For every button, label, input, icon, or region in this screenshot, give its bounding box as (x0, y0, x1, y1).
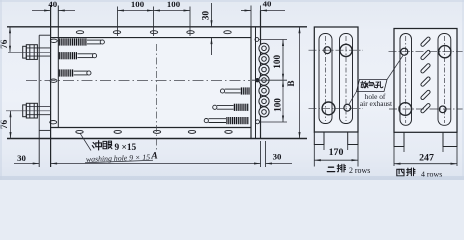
dim 40 top-left (32, 10, 75, 12)
top flange hole 1 (76, 31, 83, 34)
2-row slot right (340, 34, 353, 124)
top flange hole 5 (224, 31, 231, 34)
4-row bottom big circle (399, 103, 412, 116)
top flange hole 3 (150, 31, 157, 34)
2-row top small circle (324, 47, 331, 54)
top flange inner line (51, 37, 251, 39)
glyph 眼 of 冲眼 (103, 141, 112, 149)
leader to 4-row small circle (387, 56, 403, 80)
finned tube B3 (204, 117, 248, 124)
top flange hole 4 (187, 31, 194, 34)
svg-text:247: 247 (419, 153, 434, 164)
dim 30 vertical (top flange) (211, 3, 213, 55)
glyph 排 of 二排 (337, 164, 345, 172)
2-row feet (314, 132, 358, 145)
U-bend 2 (259, 54, 269, 64)
bottom flange hole 3 (153, 130, 160, 133)
bottom dim line with 30 / A / 30 (14, 141, 292, 167)
main view outer bottom edge (7, 138, 307, 140)
right plate hole top (255, 38, 259, 42)
finned tube T1 (59, 38, 104, 45)
glyph 放 of 放气孔 (361, 81, 368, 88)
dim 76 bottom vertical (10, 111, 12, 139)
bottom flange inner line (51, 127, 251, 129)
dim 100 right side upper (252, 40, 287, 123)
4-row louver 6 (420, 103, 431, 114)
top fitting centerline (8, 51, 51, 53)
right tube plate line a (250, 27, 252, 139)
dim 170 (314, 145, 358, 167)
hand-drawn Chinese glyphs (no CJK font available) (92, 81, 415, 176)
svg-text:30: 30 (17, 153, 26, 163)
4-row louver 3 (420, 63, 431, 74)
4-row slot centerlines (405, 36, 407, 123)
right plate hole bottom (256, 120, 260, 124)
right tube plate line b (255, 27, 257, 139)
4-row feet (394, 132, 457, 146)
top flange hole 2 (113, 31, 120, 34)
svg-text:100: 100 (272, 55, 282, 69)
main view outer top edge (7, 26, 307, 28)
2-row top big circle (340, 44, 352, 56)
dim 100 right side lower (282, 80, 284, 122)
bottom fitting centerline (6, 110, 51, 112)
top pipe union fitting (23, 45, 51, 60)
left plate hole bottom (50, 121, 57, 124)
scan shading edges (0, 0, 464, 2)
U-bend 7 (259, 107, 269, 117)
left plate hole middle (50, 79, 57, 82)
bottom flange hole 2 (114, 130, 121, 133)
2-row bottom centerline (309, 107, 364, 109)
main face left edge (50, 6, 52, 168)
glyph 排 of 四排 (407, 168, 415, 176)
svg-text:washing hole 9 × 15: washing hole 9 × 15 (86, 153, 151, 164)
bottom flange hole 4 (188, 130, 195, 133)
dim 100 first (118, 7, 154, 37)
left plate hole top (50, 39, 57, 42)
dim 76 top vertical (9, 27, 11, 53)
2-row view box (314, 27, 358, 132)
vertical centerline of main view (156, 44, 158, 150)
4-row louver 5 (420, 90, 431, 101)
U-bend 1 (259, 43, 269, 53)
svg-text:30: 30 (202, 11, 212, 21)
horizontal centerline of main view (26, 80, 250, 82)
4-row bottom centerline (389, 108, 463, 110)
4-row bottom small circle (439, 106, 446, 113)
4-row louver 1 (420, 36, 431, 47)
glyph 气 of 放气孔 (369, 81, 376, 87)
svg-text:9 ×15: 9 ×15 (115, 143, 137, 153)
finned tube B2 (213, 104, 248, 111)
svg-text:2 rows: 2 rows (349, 166, 370, 175)
2-row bottom small circle (344, 104, 351, 111)
left bracket edge (38, 35, 40, 167)
2-row slot centerlines (325, 36, 327, 121)
glyph 孔 of 放气孔 (376, 82, 383, 88)
U-bend 4 (259, 75, 269, 85)
finned tube T3 (59, 69, 91, 76)
glyph 二 of 二排 (327, 167, 334, 171)
4-row slot left (400, 34, 412, 126)
main box right edge (260, 11, 262, 139)
2-row top centerline (309, 49, 364, 51)
finned tube B1 (220, 87, 249, 94)
bottom flange hole 1 (washing hole 9x15) (76, 130, 83, 133)
svg-text:30: 30 (273, 152, 282, 162)
2-row bottom big circle (322, 102, 335, 115)
4-row slot right (438, 34, 451, 126)
leader to 2-row small circle (349, 92, 357, 105)
main box interior fill (51, 27, 261, 139)
4-row top small circle (air exhaust hole) (401, 48, 408, 55)
U-bend 5 (259, 86, 269, 96)
bottom pipe union fitting (23, 103, 51, 118)
4-row top big circle (439, 46, 451, 58)
dimension texts (0, 0, 434, 164)
dim 40 top-right (241, 6, 285, 27)
left tube plate (57, 6, 59, 128)
finned tube T2 (59, 52, 96, 59)
glyph 冲 of 冲眼 (92, 141, 101, 150)
4-row view box (394, 29, 457, 133)
dim 100 second (154, 7, 191, 37)
glyph 四 of 四排 (397, 169, 404, 176)
svg-text:100: 100 (272, 98, 282, 112)
dim B right (299, 27, 301, 139)
air exhaust callout flag (357, 80, 388, 92)
leader for washing hole (80, 133, 91, 150)
4-row louver 2 (420, 50, 431, 61)
bottom flange hole 5 (225, 130, 232, 133)
washing hole underline (85, 160, 153, 163)
svg-text:A: A (150, 152, 157, 162)
2-row slot left (319, 34, 332, 124)
right plate hole middle (filled) (255, 78, 259, 82)
U-bend 6 (259, 96, 269, 106)
U-bend 3 (259, 64, 269, 74)
dim 247 (394, 147, 457, 167)
svg-text:170: 170 (329, 147, 344, 158)
svg-text:B: B (286, 80, 296, 86)
4-row louver 4 (420, 76, 431, 87)
svg-text:air exhaust: air exhaust (360, 99, 393, 108)
4-row top centerline (389, 51, 464, 53)
